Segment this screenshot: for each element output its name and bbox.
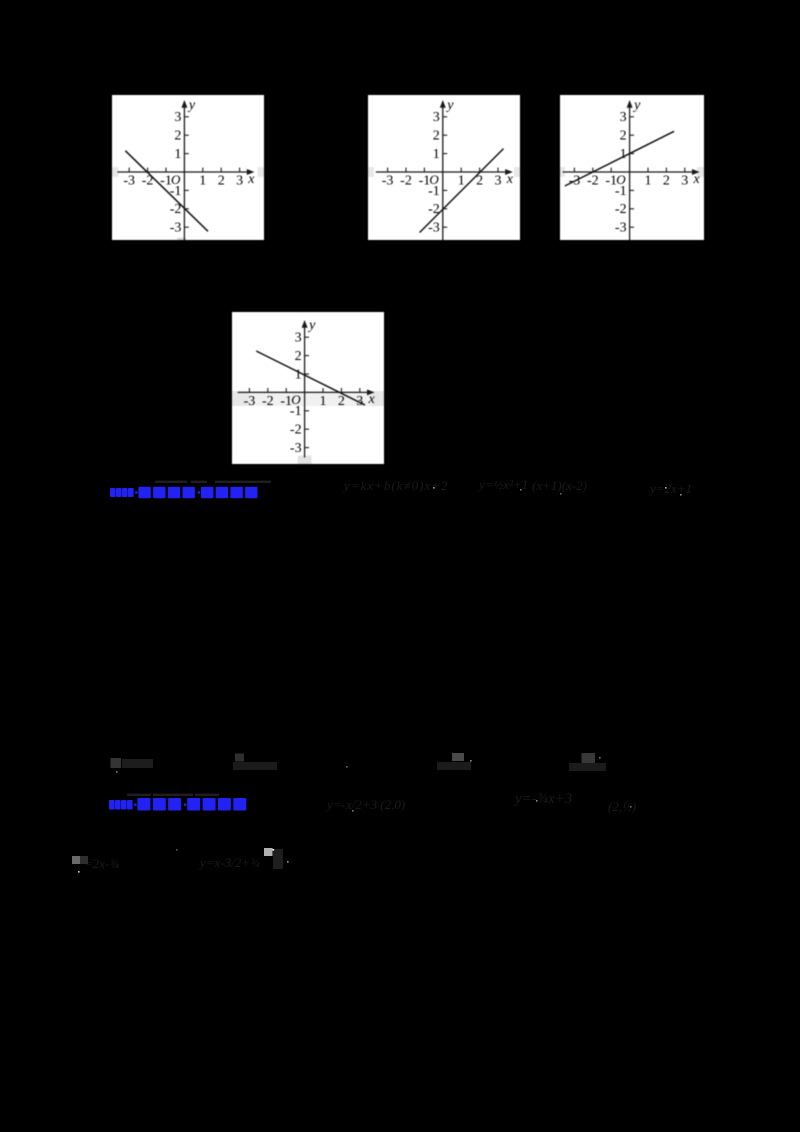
blue exam tag: 2023 exam tag 1 [109,486,269,504]
faint remnants row 1 (question line) [155,476,207,485]
graph panel A (y=-x-2) [112,95,264,240]
blue exam tag: 2023 exam tag 2 [108,798,268,817]
function line in panel D (y=-x/2+1) [256,351,365,405]
function line in panel B (y=x-2) [420,149,504,233]
function line in panel A (y=-x-2) [125,151,208,232]
graph panel C (y=x/2+1) [560,95,704,240]
function line in panel C (y=x/2+1) [565,131,674,186]
faint remnants row 3 (second question line) [127,789,219,798]
faint remnants row 4 [84,856,119,872]
graph panel D (y=-x/2+1) [232,312,384,464]
graph panel B (y=x-2) [368,95,520,240]
